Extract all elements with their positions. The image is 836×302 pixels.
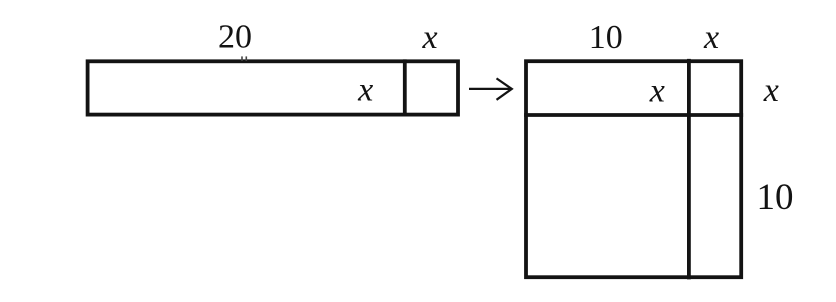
svg-text:20: 20: [218, 19, 252, 56]
svg-text:x: x: [763, 72, 779, 109]
right horizontal divider: [524, 113, 743, 117]
svg-text:x: x: [649, 73, 665, 110]
arrow: [469, 88, 511, 90]
svg-text:x: x: [357, 72, 373, 109]
tick on top edge: [241, 56, 243, 61]
left rectangle divider: [403, 59, 407, 116]
svg-text:10: 10: [757, 177, 794, 218]
svg-text:10: 10: [589, 19, 623, 56]
right vertical divider: [687, 59, 691, 280]
right figure outline: [526, 61, 741, 277]
left rectangle outline (20+x by x): [88, 61, 458, 114]
svg-text:x: x: [421, 19, 437, 56]
svg-text:x: x: [703, 19, 719, 56]
